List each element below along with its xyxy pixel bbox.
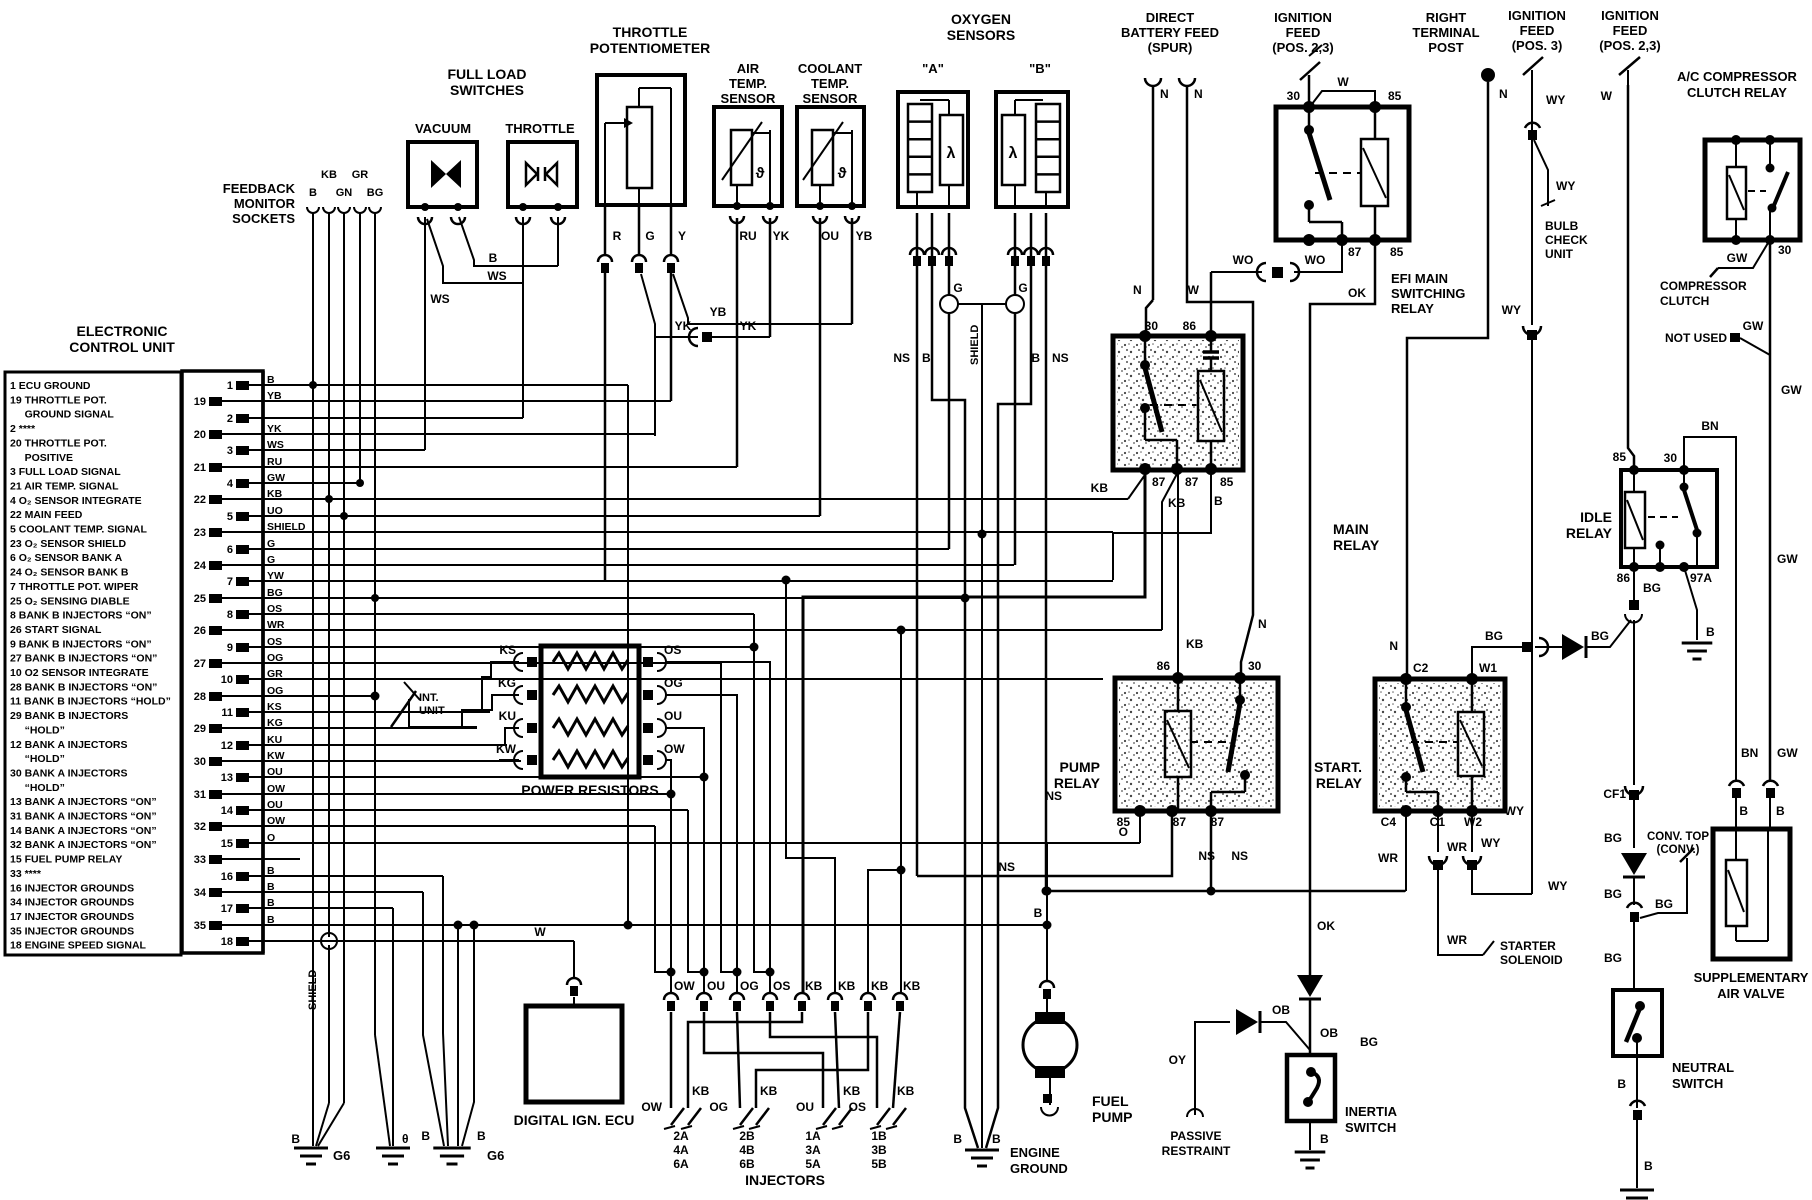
svg-text:87: 87 <box>1152 475 1166 489</box>
wire W2 WY <box>1471 811 1473 852</box>
diode conv <box>1621 853 1647 875</box>
svg-text:6 O₂ SENSOR BANK A: 6 O₂ SENSOR BANK A <box>10 552 123 564</box>
wire OS pair vertical <box>754 614 770 972</box>
BN valve connector <box>1729 781 1744 786</box>
svg-text:86: 86 <box>1617 571 1631 585</box>
wire ECU pin 5 row <box>263 515 820 517</box>
svg-text:W: W <box>1601 89 1613 103</box>
start relay K4 <box>1375 679 1505 811</box>
svg-text:16: 16 <box>221 871 233 883</box>
WY inline connector <box>1527 330 1537 340</box>
wire ECU pin 8 row <box>263 613 754 615</box>
fuel pump M1 <box>1023 1018 1077 1072</box>
svg-text:3B: 3B <box>871 1143 887 1157</box>
svg-text:TEMP.: TEMP. <box>811 76 849 91</box>
svg-text:BG: BG <box>1643 581 1661 595</box>
svg-text:7 THROTTLE POT. WIPER: 7 THROTTLE POT. WIPER <box>10 581 139 593</box>
svg-text:WO: WO <box>1305 253 1326 267</box>
svg-text:POWER RESISTORS: POWER RESISTORS <box>521 782 658 798</box>
svg-text:4 O₂ SENSOR INTEGRATE: 4 O₂ SENSOR INTEGRATE <box>10 495 142 507</box>
wire ECU pin 30 row <box>263 760 521 762</box>
wire main 85 B <box>1113 466 1211 580</box>
oxygen sensor B B2 <box>996 92 1068 207</box>
svg-text:WO: WO <box>1233 253 1254 267</box>
svg-text:W2: W2 <box>1464 815 1482 829</box>
svg-text:4A: 4A <box>673 1143 689 1157</box>
oxygen shield rings and link <box>940 295 958 313</box>
svg-text:λ: λ <box>1009 145 1018 162</box>
wire ECU pin 13 row <box>263 776 704 778</box>
oxygen sensor A connectors <box>910 248 924 255</box>
ECU connector box U1 pins 1-35 <box>182 371 263 953</box>
CF1 connector <box>1629 790 1639 800</box>
throttle full-load switch S2 <box>508 142 577 207</box>
wire ECU pin 22 row <box>263 498 1128 500</box>
svg-text:WY: WY <box>1546 93 1565 107</box>
svg-text:G6: G6 <box>333 1148 350 1163</box>
wire ECU pin 2 row <box>263 417 523 419</box>
svg-text:86: 86 <box>1183 319 1197 333</box>
node row25 dot <box>961 594 970 603</box>
ignition feed relay K2 <box>1276 107 1409 240</box>
svg-text:YK: YK <box>675 319 692 333</box>
wire OG pair vertical <box>721 663 737 972</box>
start C1 connector <box>1433 860 1443 870</box>
svg-text:WY: WY <box>1505 804 1524 818</box>
wire BG diode to connector <box>1535 646 1562 648</box>
svg-text:OW: OW <box>664 742 685 756</box>
wire ECU pin 23 row <box>263 531 1113 533</box>
throttle potentiometer RV1 <box>597 75 685 205</box>
svg-text:5B: 5B <box>871 1157 887 1171</box>
svg-text:18 ENGINE SPEED SIGNAL: 18 ENGINE SPEED SIGNAL <box>10 940 147 952</box>
svg-text:OS: OS <box>849 1100 866 1114</box>
wire OK from 85 <box>1310 240 1375 975</box>
svg-text:BG: BG <box>1655 897 1673 911</box>
svg-text:35 INJECTOR GROUNDS: 35 INJECTOR GROUNDS <box>10 925 134 937</box>
svg-text:SWITCHING: SWITCHING <box>1391 286 1465 301</box>
svg-text:12 BANK A INJECTORS: 12 BANK A INJECTORS <box>10 739 127 751</box>
svg-text:POTENTIOMETER: POTENTIOMETER <box>590 40 711 56</box>
node pin 31 junction <box>667 790 676 799</box>
svg-text:10 O2 SENSOR INTEGRATE: 10 O2 SENSOR INTEGRATE <box>10 667 149 679</box>
svg-text:14: 14 <box>221 805 234 817</box>
wire ECU pin 27 row <box>263 662 721 664</box>
wire main 87a KB diag <box>1128 472 1147 499</box>
wire pot Y stub <box>670 205 673 255</box>
conv connector <box>1627 903 1642 908</box>
svg-text:NS: NS <box>1231 849 1248 863</box>
svg-text:32 BANK A INJECTORS “ON”: 32 BANK A INJECTORS “ON” <box>10 839 157 851</box>
wire oxyA NS down <box>916 213 919 876</box>
svg-text:RELAY: RELAY <box>1316 775 1363 791</box>
battery feed connector 1 <box>1145 78 1161 86</box>
svg-text:SUPPLEMENTARY: SUPPLEMENTARY <box>1694 970 1809 985</box>
wire OS out <box>666 662 770 993</box>
interface unit INT stub <box>391 691 416 727</box>
ECU legend box U1 pin list <box>5 372 181 955</box>
svg-text:NS: NS <box>1198 849 1215 863</box>
node pin 9 junction <box>750 643 759 652</box>
svg-text:(POS. 2,3): (POS. 2,3) <box>1599 38 1660 53</box>
svg-text:25: 25 <box>194 593 206 605</box>
svg-text:OY: OY <box>1169 1053 1186 1067</box>
svg-text:GW: GW <box>1777 552 1798 566</box>
svg-text:AIR: AIR <box>737 61 760 76</box>
svg-text:OS: OS <box>664 643 681 657</box>
svg-text:YB: YB <box>710 305 727 319</box>
air temperature sensor RT1 <box>714 107 782 206</box>
svg-text:30: 30 <box>1664 451 1678 465</box>
svg-text:2 ****: 2 **** <box>10 423 36 435</box>
svg-text:YK: YK <box>773 229 790 243</box>
ground inertia <box>1295 1151 1326 1154</box>
svg-text:NEUTRAL: NEUTRAL <box>1672 1060 1734 1075</box>
ign pos23 stub <box>1627 70 1629 85</box>
svg-text:W1: W1 <box>1479 661 1497 675</box>
feedback monitor sockets J1 (B KB GN GR BG) <box>307 207 319 213</box>
wire ECU pin 7 row <box>263 580 1113 582</box>
ground engine <box>965 1149 999 1152</box>
svg-text:(POS. 2,3): (POS. 2,3) <box>1272 40 1333 55</box>
svg-text:W: W <box>534 925 546 939</box>
wire ECU pin 28 row <box>263 695 375 697</box>
svg-text:ϑ: ϑ <box>756 165 765 182</box>
wire OB diode out <box>1260 1022 1310 1050</box>
wire 97A ground <box>1684 567 1697 640</box>
neutral switch S3 <box>1613 990 1662 1056</box>
wire 86 BG down <box>1633 567 1635 600</box>
idle relay K5 <box>1621 470 1717 567</box>
svg-text:8: 8 <box>227 609 233 621</box>
wire ign feed stub <box>1308 75 1311 107</box>
svg-text:97A: 97A <box>1690 571 1712 585</box>
svg-text:WY: WY <box>1481 836 1500 850</box>
svg-text:CF1: CF1 <box>1603 787 1626 801</box>
svg-text:PUMP: PUMP <box>1060 759 1100 775</box>
wire pot R stub <box>604 205 607 255</box>
svg-text:OW: OW <box>641 1100 662 1114</box>
wire ECU pin 19 row <box>263 400 671 402</box>
inline connector WO <box>1272 267 1283 278</box>
digital ecu top connector <box>567 978 581 985</box>
svg-text:FEED: FEED <box>1613 23 1648 38</box>
svg-text:SOCKETS: SOCKETS <box>232 211 295 226</box>
wire KB feed 3 branch <box>868 870 901 993</box>
wire below diode <box>1633 877 1635 905</box>
bulb check stub bottom <box>1541 200 1555 206</box>
pot connector Y <box>664 255 678 262</box>
wire ECU pin 15 row <box>263 842 1140 844</box>
svg-text:N: N <box>1389 639 1398 653</box>
wire NS2 WR line <box>1047 890 1405 893</box>
svg-text:POST: POST <box>1428 40 1463 55</box>
not used square <box>1730 333 1740 342</box>
svg-text:AIR VALVE: AIR VALVE <box>1717 986 1785 1001</box>
svg-text:87: 87 <box>1185 475 1199 489</box>
svg-text:C2: C2 <box>1413 661 1429 675</box>
svg-text:6B: 6B <box>739 1157 755 1171</box>
svg-text:CLUTCH: CLUTCH <box>1660 294 1709 308</box>
svg-text:11: 11 <box>221 707 233 719</box>
svg-text:INT.: INT. <box>419 692 439 704</box>
wire inj OG <box>737 1012 740 1108</box>
wire OW out <box>666 760 671 993</box>
svg-text:GW: GW <box>1781 383 1802 397</box>
svg-text:START.: START. <box>1314 759 1362 775</box>
neutral connector <box>1630 1101 1645 1106</box>
wire air YK down <box>769 218 772 337</box>
svg-text:DIRECT: DIRECT <box>1146 10 1194 25</box>
svg-text:SENSORS: SENSORS <box>947 27 1015 43</box>
svg-text:13: 13 <box>221 772 233 784</box>
svg-text:SENSOR: SENSOR <box>803 91 859 106</box>
wire inj KB4 <box>756 1012 868 1108</box>
ECU connector shield row divider <box>261 371 265 953</box>
svg-text:15 FUEL PUMP RELAY: 15 FUEL PUMP RELAY <box>10 854 122 866</box>
svg-text:WR: WR <box>1447 840 1467 854</box>
ground G6 left <box>294 1147 328 1150</box>
svg-text:SWITCH: SWITCH <box>1345 1120 1396 1135</box>
svg-text:GROUND: GROUND <box>1010 1161 1068 1176</box>
svg-text:9 BANK B INJECTORS “ON”: 9 BANK B INJECTORS “ON” <box>10 638 152 650</box>
svg-text:R: R <box>613 229 622 243</box>
svg-text:“HOLD”: “HOLD” <box>10 753 65 765</box>
svg-text:3 FULL LOAD SIGNAL: 3 FULL LOAD SIGNAL <box>10 466 121 478</box>
wire ECU pin 34 row <box>263 891 423 893</box>
svg-text:1A: 1A <box>805 1129 821 1143</box>
svg-text:RU: RU <box>739 229 756 243</box>
wire NS1 <box>917 811 1172 876</box>
svg-text:12: 12 <box>221 740 233 752</box>
svg-text:Y: Y <box>678 229 686 243</box>
svg-text:B: B <box>477 1129 486 1143</box>
oxygen sensor B connectors <box>1008 248 1022 255</box>
wire WY main down <box>1531 140 1533 325</box>
svg-text:B: B <box>1320 1132 1329 1146</box>
svg-text:"A": "A" <box>922 61 944 76</box>
supplementary air valve Y1 <box>1713 829 1790 959</box>
svg-text:DIGITAL IGN. ECU: DIGITAL IGN. ECU <box>514 1112 635 1128</box>
svg-text:27: 27 <box>194 658 206 670</box>
svg-text:KB: KB <box>1186 637 1204 651</box>
wire C1 starter solenoid <box>1437 811 1439 852</box>
svg-text:WY: WY <box>1556 179 1575 193</box>
svg-text:30: 30 <box>1287 89 1301 103</box>
svg-text:85: 85 <box>1613 450 1627 464</box>
svg-text:NOT USED: NOT USED <box>1665 331 1727 345</box>
wire pump 86 feed <box>1177 472 1179 678</box>
wire inertia gnd <box>1309 1121 1311 1150</box>
wire vacuum right diag B link <box>459 217 558 266</box>
svg-text:INERTIA: INERTIA <box>1345 1104 1398 1119</box>
svg-text:RESTRAINT: RESTRAINT <box>1162 1144 1231 1158</box>
wire OU out <box>666 728 704 993</box>
svg-text:B: B <box>1034 906 1043 920</box>
wire BN into valve top <box>1735 798 1737 860</box>
ground idle <box>1682 642 1713 645</box>
svg-text:1: 1 <box>227 380 233 392</box>
wire O row to pump 85 <box>1139 811 1141 843</box>
svg-text:ENGINE: ENGINE <box>1010 1145 1060 1160</box>
wire WO from 87 <box>1294 240 1342 272</box>
svg-text:5: 5 <box>227 511 233 523</box>
ground neutral <box>1620 1189 1654 1192</box>
wire pin34 drop gnd3 <box>423 892 444 1146</box>
start W2 connector <box>1467 860 1477 870</box>
battery feed connector 2 <box>1179 78 1195 86</box>
svg-text:“HOLD”: “HOLD” <box>10 782 65 794</box>
wire inj OW <box>670 1012 673 1108</box>
wire KG feed <box>462 695 519 728</box>
svg-text:WR: WR <box>1447 933 1467 947</box>
wire OK to inertia <box>1309 999 1312 1055</box>
svg-text:"B": "B" <box>1029 61 1051 76</box>
coolant temperature sensor RT2 <box>797 107 864 206</box>
wire ECU pin 24 row <box>263 564 1014 566</box>
svg-text:NS: NS <box>998 860 1015 874</box>
svg-text:11 BANK B INJECTORS “HOLD”: 11 BANK B INJECTORS “HOLD” <box>10 696 171 708</box>
wire OW pair vertical <box>655 826 671 972</box>
svg-text:BN: BN <box>1701 419 1718 433</box>
svg-text:MONITOR: MONITOR <box>234 196 296 211</box>
svg-text:85: 85 <box>1390 245 1404 259</box>
wire ECU pin 17 row <box>263 907 393 909</box>
svg-text:OU: OU <box>707 979 725 993</box>
wire row35 drop gnd3b <box>462 925 474 1146</box>
svg-text:30: 30 <box>1778 243 1792 257</box>
svg-text:GR: GR <box>352 169 369 181</box>
wire WY lower <box>1531 340 1533 894</box>
svg-text:OG: OG <box>740 979 759 993</box>
wire KS feed <box>482 662 519 712</box>
svg-text:29: 29 <box>194 723 206 735</box>
wire inj OS <box>770 1012 877 1108</box>
svg-text:5A: 5A <box>805 1157 821 1171</box>
svg-text:IGNITION: IGNITION <box>1508 8 1566 23</box>
svg-text:10: 10 <box>221 674 233 686</box>
svg-text:WY: WY <box>1548 879 1567 893</box>
svg-text:IGNITION: IGNITION <box>1601 8 1659 23</box>
svg-text:BG: BG <box>1604 831 1622 845</box>
svg-text:CHECK: CHECK <box>1545 233 1588 247</box>
svg-text:24: 24 <box>194 560 207 572</box>
conv top stub <box>1640 858 1687 918</box>
wire inj KB8 <box>893 1012 900 1108</box>
svg-text:THROTTLE: THROTTLE <box>613 24 688 40</box>
svg-text:20: 20 <box>194 429 206 441</box>
svg-text:OK: OK <box>1317 919 1335 933</box>
wire coolant OU down <box>819 218 822 516</box>
svg-text:85: 85 <box>1220 475 1234 489</box>
svg-text:NS: NS <box>1045 789 1062 803</box>
svg-text:OG: OG <box>664 676 683 690</box>
svg-text:BATTERY FEED: BATTERY FEED <box>1121 25 1219 40</box>
svg-text:87: 87 <box>1348 245 1362 259</box>
wire oxyB NS down <box>1045 213 1048 891</box>
a/c compressor clutch relay K6 <box>1705 140 1800 240</box>
svg-text:CONTROL UNIT: CONTROL UNIT <box>69 339 175 355</box>
wire air RU down <box>736 218 739 467</box>
svg-text:SWITCH: SWITCH <box>1672 1076 1723 1091</box>
inertia switch S4 <box>1287 1055 1335 1121</box>
wire N to pump relay 30 <box>1187 86 1253 678</box>
svg-text:KB: KB <box>897 1084 915 1098</box>
wire socket BG down <box>374 213 376 1035</box>
oxygen sensor A B1 <box>898 92 968 207</box>
svg-text:A/C COMPRESSOR: A/C COMPRESSOR <box>1677 69 1798 84</box>
svg-text:3A: 3A <box>805 1143 821 1157</box>
wire GW into valve top <box>1769 798 1771 829</box>
svg-text:WS: WS <box>487 269 506 283</box>
wire GW main down <box>1769 240 1772 780</box>
svg-text:W: W <box>1188 283 1200 297</box>
svg-text:34: 34 <box>194 887 207 899</box>
svg-text:KB: KB <box>805 979 823 993</box>
svg-text:COOLANT: COOLANT <box>798 61 862 76</box>
svg-text:NS: NS <box>1052 351 1069 365</box>
svg-text:B: B <box>992 1132 1001 1146</box>
svg-text:26 START SIGNAL: 26 START SIGNAL <box>10 624 102 636</box>
svg-text:87: 87 <box>1211 815 1225 829</box>
svg-text:KB: KB <box>760 1084 778 1098</box>
svg-text:PUMP: PUMP <box>1092 1109 1132 1125</box>
svg-text:SENSOR: SENSOR <box>721 91 777 106</box>
svg-text:SWITCHES: SWITCHES <box>450 82 524 98</box>
wire ECU pin 10 row <box>263 678 1103 680</box>
svg-text:N: N <box>1194 87 1203 101</box>
wire socket KB down <box>328 213 330 937</box>
svg-text:UNIT: UNIT <box>1545 247 1574 261</box>
svg-text:9: 9 <box>227 642 233 654</box>
svg-text:N: N <box>1499 87 1508 101</box>
wire OU pair vertical <box>688 810 704 972</box>
svg-text:2A: 2A <box>673 1129 689 1143</box>
svg-text:N: N <box>1258 617 1267 631</box>
wire N to main relay 30 <box>1152 86 1155 300</box>
wire ECU pin 20 row <box>263 433 655 435</box>
svg-text:POSITIVE: POSITIVE <box>10 452 73 464</box>
svg-text:18: 18 <box>221 936 233 948</box>
svg-text:15: 15 <box>221 838 233 850</box>
wire vacuum left diag to WS link <box>427 219 523 283</box>
wire OG out <box>666 695 737 993</box>
wire oxyA B down <box>932 213 978 1148</box>
svg-text:B: B <box>922 351 931 365</box>
svg-text:21 AIR TEMP. SIGNAL: 21 AIR TEMP. SIGNAL <box>10 480 119 492</box>
svg-text:UNIT: UNIT <box>419 705 445 717</box>
svg-text:MAIN: MAIN <box>1333 521 1369 537</box>
wire neutral gnd <box>1636 1120 1638 1188</box>
power resistors R1-R4 <box>541 646 639 777</box>
diode BG <box>1562 634 1584 660</box>
wire pump ground <box>1049 1078 1051 1105</box>
svg-text:28 BANK B INJECTORS “ON”: 28 BANK B INJECTORS “ON” <box>10 681 157 693</box>
svg-text:SHIELD: SHIELD <box>307 970 319 1010</box>
wire KB feed 34 from row26 <box>900 630 902 993</box>
svg-text:SHIELD: SHIELD <box>969 325 981 365</box>
svg-text:KU: KU <box>499 709 516 723</box>
main relay K1 <box>1113 336 1243 470</box>
svg-text:GROUND SIGNAL: GROUND SIGNAL <box>10 409 114 421</box>
svg-text:OS: OS <box>773 979 790 993</box>
wire main 87b KB diag <box>1162 472 1178 630</box>
wire ECU pin 21 row <box>263 466 737 468</box>
svg-text:KB: KB <box>321 169 337 181</box>
svg-text:KB: KB <box>1091 481 1109 495</box>
svg-text:(SPUR): (SPUR) <box>1148 40 1193 55</box>
wire GW compressor diag <box>1718 243 1768 268</box>
